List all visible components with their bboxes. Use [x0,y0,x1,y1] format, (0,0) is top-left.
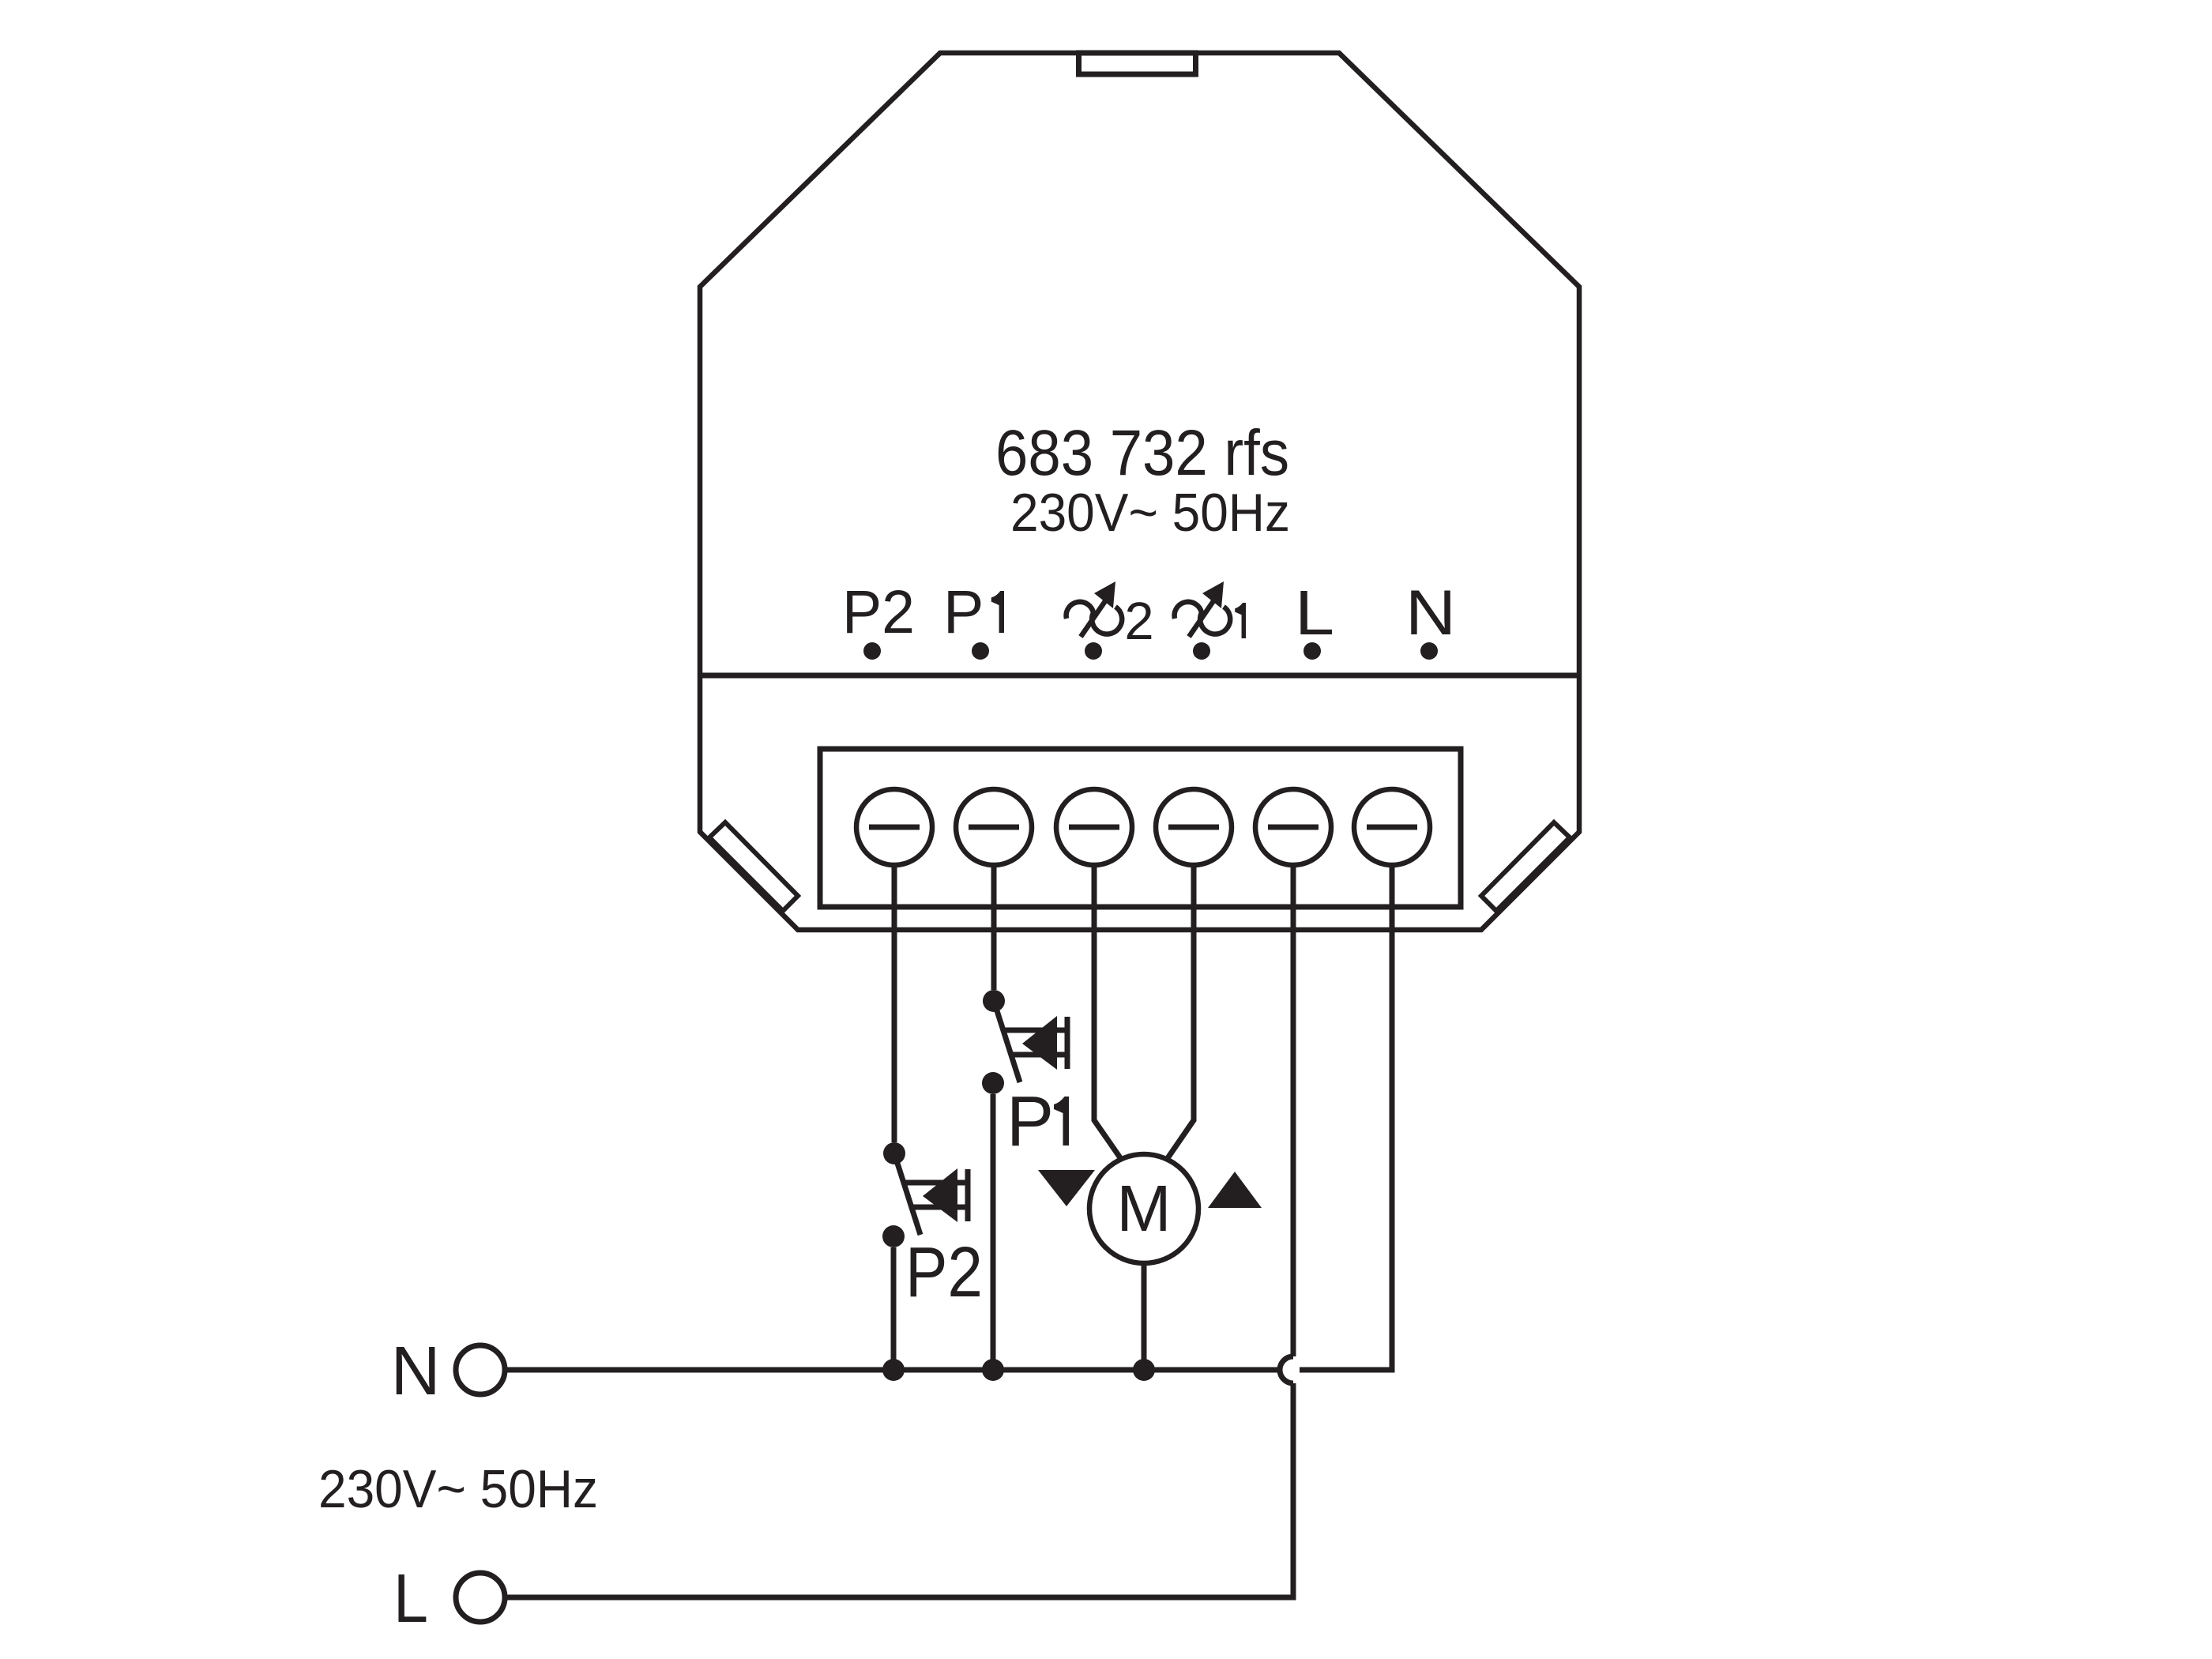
svg-text:L: L [393,1560,428,1637]
svg-text:N: N [391,1333,441,1409]
svg-text:230V~ 50Hz: 230V~ 50Hz [318,1459,598,1519]
svg-text:683 732 rfs: 683 732 rfs [995,417,1289,489]
svg-text:P: P [1006,1082,1054,1161]
svg-text:M: M [1116,1172,1171,1245]
svg-text:P2: P2 [842,578,915,646]
svg-text:P: P [943,578,984,646]
svg-text:N: N [1405,577,1456,649]
svg-text:2: 2 [1124,592,1153,651]
svg-text:P2: P2 [905,1233,983,1312]
svg-text:230V~ 50Hz: 230V~ 50Hz [1010,483,1290,543]
svg-text:L: L [1295,577,1334,648]
